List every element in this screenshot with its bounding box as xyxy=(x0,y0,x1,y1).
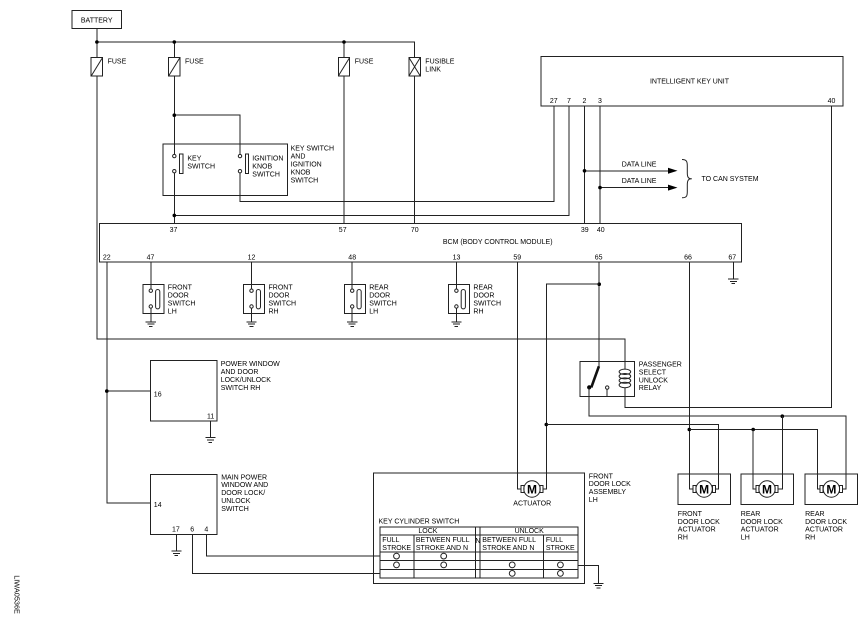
svg-text:PASSENGER: PASSENGER xyxy=(639,362,682,369)
svg-text:DOOR: DOOR xyxy=(269,293,290,300)
svg-text:BETWEEN FULL: BETWEEN FULL xyxy=(416,537,470,544)
svg-text:RH: RH xyxy=(473,309,483,316)
svg-text:DOOR LOCK: DOOR LOCK xyxy=(805,519,847,526)
svg-text:STROKE: STROKE xyxy=(546,545,575,552)
svg-text:LOCK: LOCK xyxy=(418,528,437,535)
svg-text:IGNITION: IGNITION xyxy=(291,162,322,169)
svg-text:SWITCH: SWITCH xyxy=(187,164,215,171)
svg-text:AND: AND xyxy=(291,154,306,161)
svg-text:59: 59 xyxy=(513,254,521,261)
svg-text:16: 16 xyxy=(154,391,162,398)
svg-text:DOOR LOCK/: DOOR LOCK/ xyxy=(221,490,265,497)
svg-text:REAR: REAR xyxy=(741,511,760,518)
svg-text:40: 40 xyxy=(597,227,605,234)
svg-text:67: 67 xyxy=(728,254,736,261)
svg-text:DOOR LOCK: DOOR LOCK xyxy=(741,519,783,526)
svg-text:LH: LH xyxy=(369,309,378,316)
svg-text:WINDOW AND: WINDOW AND xyxy=(221,482,268,489)
svg-text:FUSE: FUSE xyxy=(355,59,374,66)
svg-text:KEY: KEY xyxy=(187,156,201,163)
svg-text:SWITCH: SWITCH xyxy=(473,301,501,308)
svg-text:3: 3 xyxy=(598,98,602,105)
svg-text:REAR: REAR xyxy=(473,285,492,292)
svg-text:BETWEEN FULL: BETWEEN FULL xyxy=(482,537,536,544)
svg-text:LINK: LINK xyxy=(425,67,441,74)
svg-text:LOCK/UNLOCK: LOCK/UNLOCK xyxy=(221,377,272,384)
svg-text:FULL: FULL xyxy=(546,537,563,544)
svg-text:UNLOCK: UNLOCK xyxy=(515,528,545,535)
svg-text:47: 47 xyxy=(147,254,155,261)
svg-text:LH: LH xyxy=(741,535,750,542)
svg-text:KEY CYLINDER SWITCH: KEY CYLINDER SWITCH xyxy=(379,518,460,525)
svg-text:KNOB: KNOB xyxy=(252,164,272,171)
svg-text:DOOR: DOOR xyxy=(473,293,494,300)
svg-text:57: 57 xyxy=(339,227,347,234)
svg-text:REAR: REAR xyxy=(369,285,388,292)
svg-text:27: 27 xyxy=(550,98,558,105)
svg-text:6: 6 xyxy=(190,527,194,534)
svg-text:SWITCH: SWITCH xyxy=(221,506,249,513)
svg-text:SELECT: SELECT xyxy=(639,369,667,376)
svg-text:11: 11 xyxy=(207,414,214,421)
svg-text:FRONT: FRONT xyxy=(168,285,193,292)
svg-text:POWER WINDOW: POWER WINDOW xyxy=(221,361,280,368)
svg-text:66: 66 xyxy=(684,254,692,261)
svg-text:TO CAN SYSTEM: TO CAN SYSTEM xyxy=(702,176,759,183)
svg-text:UNLOCK: UNLOCK xyxy=(639,377,669,384)
svg-text:KEY SWITCH: KEY SWITCH xyxy=(291,146,334,153)
svg-text:22: 22 xyxy=(103,254,111,261)
svg-text:SWITCH: SWITCH xyxy=(252,172,280,179)
svg-text:2: 2 xyxy=(583,98,587,105)
svg-text:ACTUATOR: ACTUATOR xyxy=(741,527,779,534)
svg-text:AND DOOR: AND DOOR xyxy=(221,369,259,376)
svg-text:STROKE AND N: STROKE AND N xyxy=(416,545,468,552)
svg-text:MAIN POWER: MAIN POWER xyxy=(221,474,267,481)
svg-text:LIWA0536E: LIWA0536E xyxy=(13,575,22,614)
svg-text:RH: RH xyxy=(269,309,279,316)
svg-text:IGNITION: IGNITION xyxy=(252,156,283,163)
svg-text:14: 14 xyxy=(154,502,162,509)
svg-text:LH: LH xyxy=(168,309,177,316)
svg-text:48: 48 xyxy=(348,254,356,261)
svg-text:RH: RH xyxy=(805,535,815,542)
svg-text:N: N xyxy=(475,538,480,545)
svg-text:DATA LINE: DATA LINE xyxy=(622,178,657,185)
svg-text:RELAY: RELAY xyxy=(639,385,662,392)
svg-text:SWITCH: SWITCH xyxy=(291,178,319,185)
svg-text:70: 70 xyxy=(411,227,419,234)
svg-text:UNLOCK: UNLOCK xyxy=(221,498,251,505)
svg-text:LH: LH xyxy=(589,497,598,504)
svg-text:37: 37 xyxy=(170,227,178,234)
svg-text:SWITCH: SWITCH xyxy=(168,301,196,308)
svg-text:DOOR: DOOR xyxy=(168,293,189,300)
svg-text:FRONT: FRONT xyxy=(589,473,614,480)
svg-text:DOOR: DOOR xyxy=(369,293,390,300)
svg-text:FUSE: FUSE xyxy=(185,59,204,66)
svg-text:13: 13 xyxy=(453,254,461,261)
svg-text:12: 12 xyxy=(248,254,256,261)
svg-text:INTELLIGENT KEY UNIT: INTELLIGENT KEY UNIT xyxy=(650,79,730,86)
svg-text:7: 7 xyxy=(567,98,571,105)
svg-text:39: 39 xyxy=(581,227,589,234)
svg-text:40: 40 xyxy=(828,98,836,105)
svg-text:65: 65 xyxy=(595,254,603,261)
svg-text:ASSEMBLY: ASSEMBLY xyxy=(589,489,627,496)
svg-text:SWITCH RH: SWITCH RH xyxy=(221,385,261,392)
svg-text:SWITCH: SWITCH xyxy=(369,301,397,308)
svg-text:DOOR LOCK: DOOR LOCK xyxy=(678,519,720,526)
svg-text:STROKE AND N: STROKE AND N xyxy=(482,545,534,552)
svg-text:DATA LINE: DATA LINE xyxy=(622,161,657,168)
svg-text:BCM (BODY CONTROL MODULE): BCM (BODY CONTROL MODULE) xyxy=(443,239,553,246)
svg-text:17: 17 xyxy=(172,527,180,534)
svg-text:BATTERY: BATTERY xyxy=(81,17,113,24)
svg-text:ACTUATOR: ACTUATOR xyxy=(513,501,551,508)
svg-text:ACTUATOR: ACTUATOR xyxy=(805,527,843,534)
svg-text:FRONT: FRONT xyxy=(269,285,294,292)
svg-text:FUSE: FUSE xyxy=(108,59,127,66)
svg-text:4: 4 xyxy=(204,527,208,534)
svg-text:STROKE: STROKE xyxy=(382,545,411,552)
svg-text:DOOR LOCK: DOOR LOCK xyxy=(589,481,631,488)
svg-text:FUSIBLE: FUSIBLE xyxy=(425,59,455,66)
svg-text:FRONT: FRONT xyxy=(678,511,703,518)
svg-text:RH: RH xyxy=(678,535,688,542)
svg-text:SWITCH: SWITCH xyxy=(269,301,297,308)
svg-text:REAR: REAR xyxy=(805,511,824,518)
svg-text:KNOB: KNOB xyxy=(291,170,311,177)
svg-text:FULL: FULL xyxy=(382,537,399,544)
svg-text:ACTUATOR: ACTUATOR xyxy=(678,527,716,534)
